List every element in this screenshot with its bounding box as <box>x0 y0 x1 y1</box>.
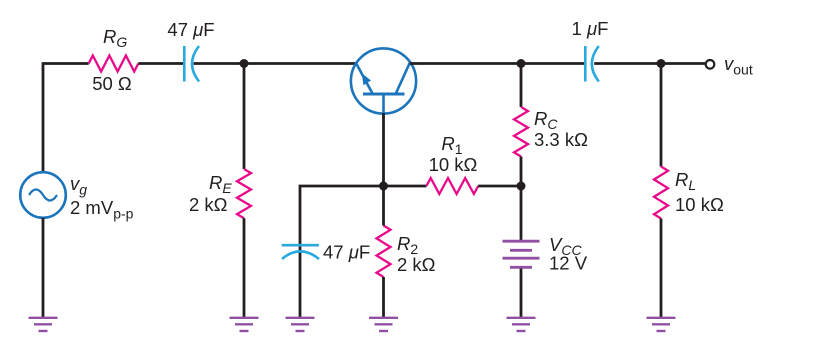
resistor RC <box>514 107 528 157</box>
svg-text:47 μF: 47 μF <box>323 242 370 263</box>
svg-text:vg: vg <box>70 173 87 198</box>
node: base / R2 junction <box>379 182 388 191</box>
wire: R1 to VCC node <box>478 185 521 188</box>
node: R1 / RC / VCC junction <box>517 182 526 191</box>
wire: battery to ground <box>520 269 523 319</box>
svg-text:3.3 kΩ: 3.3 kΩ <box>534 129 588 150</box>
svg-text:12 V: 12 V <box>549 253 588 274</box>
capacitor C1 47uF input coupling <box>184 46 199 82</box>
wire: capacitor to transistor emitter (through RE node) <box>194 62 356 65</box>
wire: vg to ground <box>42 218 45 318</box>
ground (VCC) <box>507 318 536 331</box>
wire: VCC node to battery <box>520 186 523 240</box>
transistor Q1 (NPN, common-base) <box>351 48 416 118</box>
svg-text:RG: RG <box>103 26 127 50</box>
wire: RE to ground <box>243 218 246 318</box>
svg-text:47 μF: 47 μF <box>167 19 214 40</box>
svg-text:10 kΩ: 10 kΩ <box>675 194 724 215</box>
wire: bias rail left segment (bypass cap corner) <box>300 186 426 246</box>
svg-text:RL: RL <box>675 169 696 193</box>
wire: RC to VCC node <box>520 157 523 187</box>
wire: RL to ground <box>660 219 663 319</box>
node: emitter / RE junction <box>240 59 249 68</box>
wire: bias node to R2 <box>382 186 385 226</box>
resistor RL <box>654 167 668 219</box>
svg-text:2 kΩ: 2 kΩ <box>397 254 436 275</box>
resistor RG <box>89 56 139 72</box>
wire: collector to output cap (through RC node) <box>410 62 586 65</box>
svg-text:2 mVp-p: 2 mVp-p <box>70 197 134 222</box>
wire: node to RE <box>243 64 246 170</box>
source vg (sine source) <box>20 172 66 218</box>
wire: bypass cap branch to ground (continuous through plates) <box>299 246 302 319</box>
resistor RE <box>237 169 251 218</box>
wire: left vertical + top-left segment to RG <box>43 64 89 173</box>
svg-text:10 kΩ: 10 kΩ <box>429 154 478 175</box>
node: RL / output junction <box>657 59 666 68</box>
capacitor C2 47uF base bypass <box>282 245 319 259</box>
ground (bypass cap) <box>286 318 315 331</box>
ground (RL) <box>647 318 676 331</box>
wire: output node to RL <box>660 64 663 167</box>
resistor R2 <box>377 226 391 278</box>
ground (RE) <box>230 318 259 331</box>
wire: collector node to RC <box>520 64 523 108</box>
terminal: vout open circle <box>706 60 715 69</box>
wire: base lead down to bias node <box>382 113 385 186</box>
node: collector / RC junction <box>517 59 526 68</box>
ground (R2) <box>369 318 398 331</box>
wire: R2 to ground <box>382 277 385 318</box>
svg-text:1 μF: 1 μF <box>572 18 609 39</box>
battery VCC 12V <box>503 241 540 267</box>
svg-text:RE: RE <box>209 172 232 196</box>
svg-text:vout: vout <box>724 53 753 78</box>
svg-text:2 kΩ: 2 kΩ <box>189 194 228 215</box>
resistor R1 <box>426 178 478 194</box>
capacitor C3 1uF output coupling <box>585 46 599 82</box>
ground (vg) <box>29 318 58 331</box>
wire: output cap to vout terminal (through RL node) <box>594 62 705 65</box>
wire: RG to input coupling capacitor <box>138 62 184 65</box>
svg-text:50 Ω: 50 Ω <box>92 73 132 94</box>
